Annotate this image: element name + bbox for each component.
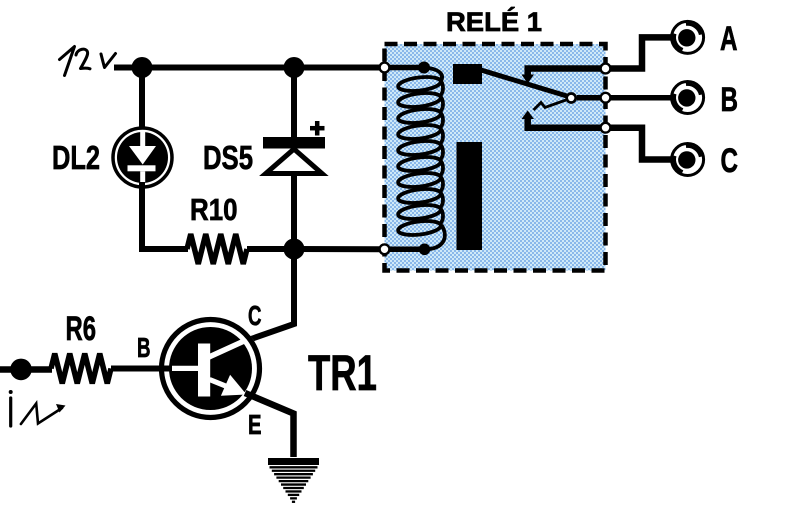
relay coil top wire <box>385 65 424 71</box>
terminal dot B <box>601 93 611 103</box>
node input terminal <box>10 359 32 381</box>
relay core bar <box>457 142 483 250</box>
relay pivot common <box>567 94 576 103</box>
terminal dot coil top left <box>380 63 390 73</box>
relay coil <box>397 68 444 250</box>
svg-text:R6: R6 <box>66 310 97 348</box>
svg-text:B: B <box>721 81 739 119</box>
arrow NO contact <box>522 75 535 84</box>
wire junction to relay coil <box>294 246 386 252</box>
wire collector <box>243 249 295 342</box>
label 12v (handwritten supply) <box>60 47 116 76</box>
resistor R10 <box>187 234 247 264</box>
relay fixed contact <box>453 64 482 84</box>
node diode top junction <box>284 57 305 78</box>
svg-text:A: A <box>720 20 738 58</box>
node supply junction <box>132 57 153 78</box>
wire relay to C <box>528 119 671 160</box>
svg-text:E: E <box>248 409 262 440</box>
svg-text:C: C <box>248 300 262 331</box>
label + polarity <box>310 121 325 136</box>
connector C <box>672 144 704 176</box>
svg-text:DS5: DS5 <box>203 139 253 176</box>
resistor R6 <box>51 354 111 384</box>
svg-text:DL2: DL2 <box>52 139 100 176</box>
wire DL2 cathode <box>142 182 188 249</box>
wire DS5 anode lead <box>291 172 297 249</box>
terminal dot C <box>601 123 611 133</box>
terminal dot A <box>601 64 611 74</box>
svg-text:C: C <box>721 142 739 180</box>
wire base <box>111 366 172 372</box>
svg-text:TR1: TR1 <box>308 345 377 401</box>
wire DL2 anode <box>139 68 145 135</box>
node coil bottom <box>419 244 431 256</box>
wire R10 to junction <box>247 246 294 252</box>
svg-text:RELÉ 1: RELÉ 1 <box>446 6 542 37</box>
relay RELE 1 box <box>385 44 606 271</box>
wire relay to A <box>528 37 671 74</box>
ground <box>268 462 319 502</box>
connector A <box>672 21 704 53</box>
label in (handwritten input waveform) <box>9 390 66 426</box>
arrow NC contact <box>522 111 535 120</box>
svg-text:R10: R10 <box>190 192 238 227</box>
relay throw squiggle <box>534 100 567 110</box>
node coil top <box>418 62 430 74</box>
relay armature blade <box>481 70 569 97</box>
wire emitter <box>245 393 294 457</box>
svg-text:B: B <box>137 332 151 363</box>
wire DS5 cathode lead <box>291 68 297 140</box>
wire 12V top rail <box>114 65 386 71</box>
terminal dot coil bottom left <box>380 244 390 254</box>
wire input stub <box>0 366 52 373</box>
wire relay common to B <box>577 95 671 101</box>
connector B <box>672 82 704 114</box>
node collector junction <box>284 239 305 260</box>
LED DL2 <box>91 106 194 209</box>
relay coil bottom wire <box>385 247 425 253</box>
diode DS5 <box>263 137 325 174</box>
transistor TR1 <box>159 317 262 420</box>
